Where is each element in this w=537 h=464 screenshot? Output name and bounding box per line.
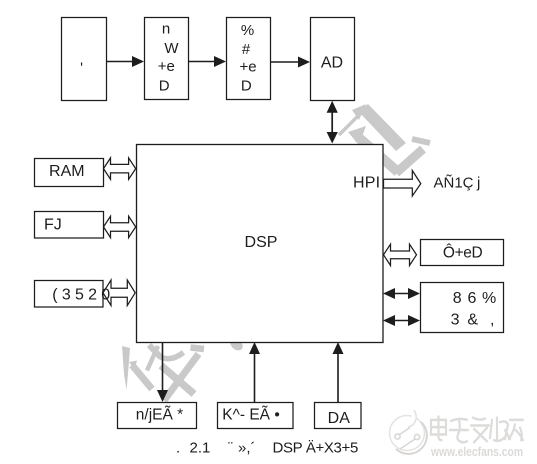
svg-text:www.elecfans.com: www.elecfans.com [430,444,523,459]
watermark V left arm [358,137,398,172]
elecfans logo url text [430,444,523,459]
arrow box2 to box3 [189,56,226,67]
double arrow AD to DSP [327,101,338,144]
caption [176,440,358,457]
watermark lower-left blade stroke [122,346,130,390]
box input 1 [62,18,107,101]
watermark stroke upper-right thick bar [358,104,406,151]
svg-text:DSP Ä+X3+5: DSP Ä+X3+5 [273,440,358,457]
svg-text:#: # [242,41,251,58]
svg-text:+e: +e [158,58,175,75]
box FJ [35,212,104,239]
filled double arrow DSP-86 lower [383,315,420,326]
arrow keypad up to DSP [249,342,260,402]
hollow double arrow RAM-DSP [104,158,136,179]
svg-text:D: D [159,78,170,95]
svg-text:AD: AD [321,55,343,72]
box stage 3 [227,18,271,100]
box DA [315,403,362,429]
arrow box1 to box2 [106,56,144,67]
box 3520 [35,281,111,308]
box display [118,403,197,429]
svg-text:RAM: RAM [49,163,85,180]
svg-text:DA: DA [328,410,351,427]
arrow DSP down to display box [157,342,168,402]
watermark X slash arm [164,354,199,401]
svg-text:86%: 86% [453,290,496,307]
svg-text:W: W [164,40,179,57]
DSP box [137,145,384,343]
filled double arrow DSP-86 upper [383,288,420,299]
box OeD [421,240,504,266]
svg-text:¨: ¨ [228,440,233,457]
hollow double arrow 3520-DSP [103,280,135,305]
svg-text:K^- EÃ •: K^- EÃ • [222,407,280,424]
watermark lambda legs [147,345,161,371]
svg-text:HPI: HPI [353,174,380,191]
arrow box3 to AD [271,57,310,68]
HPI destination label [434,175,481,192]
watermark barb upper-right [352,104,366,120]
elecfans logo glyphs [431,416,523,442]
svg-text:»,´: »,´ [238,440,256,457]
svg-text:n/jEÃ *: n/jEÃ * [136,407,183,424]
box stage 2 [145,18,189,100]
watermark V right arm [396,149,423,173]
watermark X backslash arm [161,366,194,395]
svg-text:( 3 5 2 0: ( 3 5 2 0 [52,286,110,303]
watermark stroke upper-right thin leg [339,112,362,135]
svg-text:DSP: DSP [245,234,278,251]
svg-text:+e: +e [239,58,256,75]
svg-text:D: D [241,78,252,95]
watermark lower small blob [228,336,245,353]
HPI label [353,174,380,191]
svg-text:': ' [80,60,83,77]
arrow DA up to DSP [333,342,344,402]
svg-text:FJ: FJ [44,216,62,233]
svg-text:AÑ1Çj: AÑ1Çj [434,175,481,192]
watermark lower-left arrowed stroke [129,361,152,390]
svg-text:.: . [176,440,180,457]
box keypad [218,403,294,429]
svg-text:Ô+eD: Ô+eD [443,244,483,261]
hollow arrow HPI out [384,171,421,197]
elecfans logo circle [390,410,427,454]
watermark curved sweep [161,353,184,359]
box RAM [35,159,104,187]
watermark serif bar [191,348,205,350]
svg-text:2.1: 2.1 [190,440,211,457]
svg-text:%: % [241,22,254,39]
svg-text:n: n [162,20,170,37]
hollow double arrow DSP-OeD [384,244,417,265]
watermark V serif bracket [412,139,430,143]
watermark V left barb [348,126,366,145]
box AD [311,18,355,101]
box 86 [421,283,504,333]
hollow double arrow FJ-DSP [104,216,136,237]
